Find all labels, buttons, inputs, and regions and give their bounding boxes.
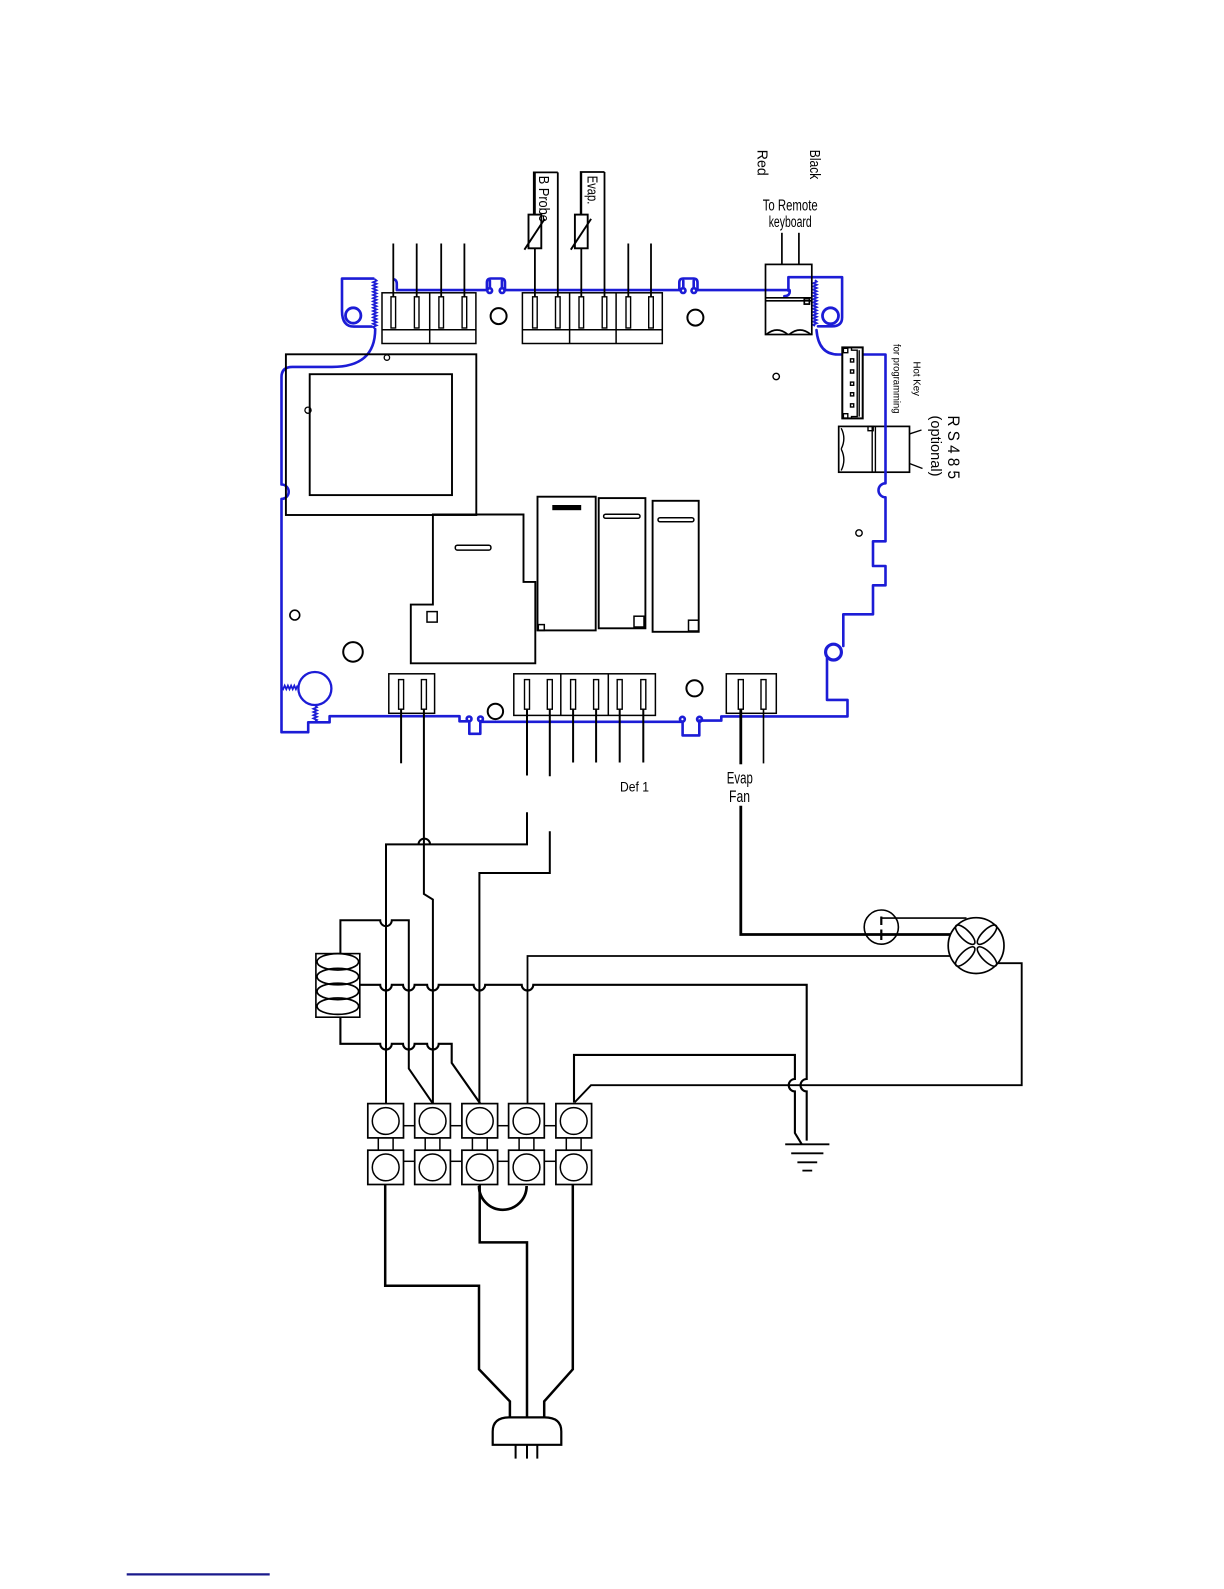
svg-text:Evap.: Evap. (583, 176, 599, 205)
svg-text:Evap: Evap (727, 769, 753, 788)
svg-text:R S 4 8 5: R S 4 8 5 (944, 416, 962, 480)
svg-text:Fan: Fan (729, 787, 750, 806)
svg-text:Black: Black (806, 150, 823, 180)
svg-text:for programming: for programming (891, 344, 902, 414)
svg-text:keyboard: keyboard (769, 214, 812, 231)
svg-text:B Probe: B Probe (535, 176, 551, 222)
svg-text:To Remote: To Remote (763, 198, 818, 215)
svg-text:Def 1: Def 1 (620, 779, 649, 795)
svg-text:Hot Key: Hot Key (911, 362, 922, 397)
svg-text:(optional): (optional) (927, 416, 944, 477)
svg-text:Red: Red (753, 150, 770, 176)
